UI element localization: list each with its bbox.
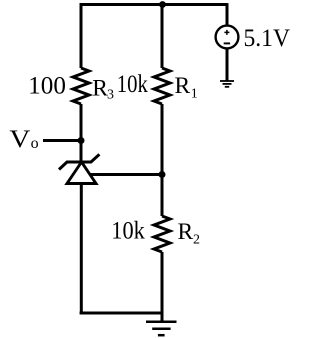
svg-text:R: R [92,76,108,102]
svg-text:V: V [9,126,30,153]
svg-text:100: 100 [28,73,66,100]
svg-text:5.1V: 5.1V [244,25,291,52]
svg-text:3: 3 [107,88,114,103]
svg-text:10k: 10k [111,218,145,245]
svg-text:R: R [178,219,194,245]
svg-text:o: o [31,135,39,152]
svg-text:R: R [175,73,191,99]
svg-text:1: 1 [191,87,198,102]
svg-text:2: 2 [193,233,200,248]
svg-text:10k: 10k [117,71,148,98]
